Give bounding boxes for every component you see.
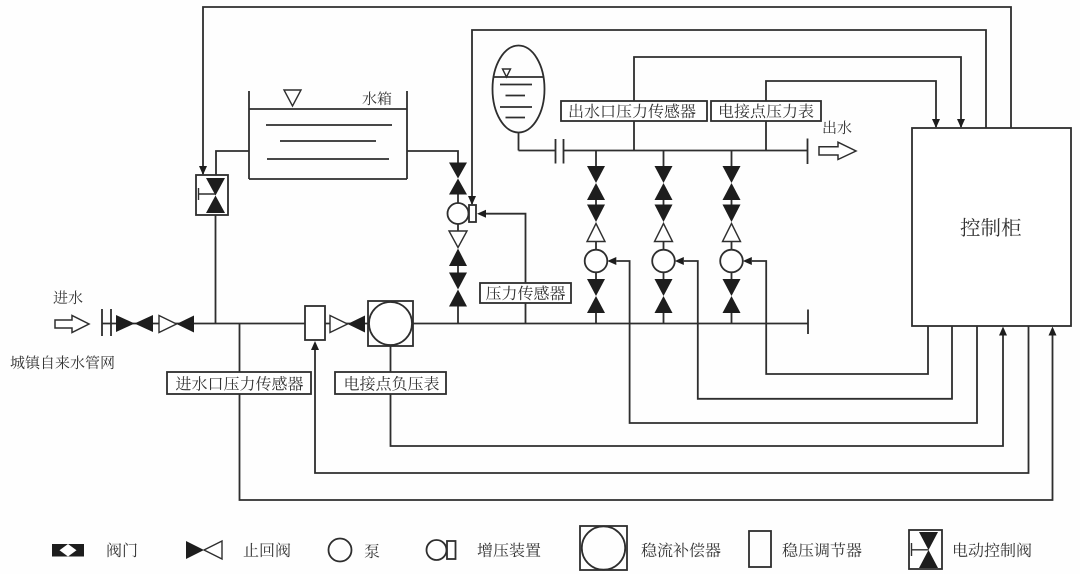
wire pump 3 control arrowhead [743, 257, 752, 265]
wire outlet sensor to manifold [633, 121, 635, 151]
legend booster rect [447, 541, 456, 559]
label legend 稳压调节器 [782, 543, 797, 558]
vessel gauge line 1 [500, 84, 532, 86]
pump 2 circle [652, 250, 675, 273]
electric control valve V1 box [196, 175, 228, 215]
pump branch 1 pipe to pump [595, 242, 597, 251]
pipe V6 to main pipe [457, 307, 459, 325]
electric valve V4 bowtie lower [449, 179, 467, 195]
vessel gauge line 2 [506, 95, 526, 97]
arrowhead D into cabinet bottom [999, 327, 1007, 336]
check valve V3 filled half [177, 316, 195, 333]
label 出水 [823, 121, 835, 135]
water tank left wall [248, 91, 250, 179]
pipe valve V1 to main pipe [215, 215, 217, 324]
label legend 阀门 [108, 542, 122, 557]
pipe vessel to union [519, 150, 556, 152]
check valve V8 hollow half [330, 316, 348, 333]
label legend 止回阀 [244, 543, 259, 557]
outlet union tick 1 [555, 139, 557, 164]
pump branch 2 pipe below pump [663, 272, 665, 279]
pump branch 1 upper pipe [595, 151, 597, 167]
water tank bottom [249, 178, 407, 180]
legend compensator circle [582, 526, 625, 569]
valve V1 stem T [198, 188, 200, 200]
legend compensator square [580, 526, 627, 570]
water tank right wall [406, 91, 408, 179]
pump branch 3 lower bowtie upper [723, 279, 741, 296]
pipe tank to booster column [407, 151, 458, 163]
pipe booster pump to check valve [457, 224, 459, 231]
pump branch 1 pipe [595, 200, 597, 205]
pump 3 circle [720, 250, 743, 273]
legend check valve hollow half [204, 541, 222, 559]
pump branch 2 pipe to pump [663, 242, 665, 251]
legend valve symbol bar [52, 544, 84, 557]
pipe check valve to V6 [457, 266, 459, 273]
valve V1 bowtie upper [206, 178, 225, 196]
arrowhead W4 into cabinet top [932, 119, 940, 128]
wire booster sensor arrowhead [477, 210, 486, 218]
legend valve symbol diamond notch [60, 544, 77, 557]
pump branch 3 pipe [731, 200, 733, 205]
pump branch 2 pipe to suction main [663, 313, 665, 324]
control cabinet box [912, 128, 1071, 326]
pump branch 2 valve bowtie lower [655, 183, 673, 200]
wire pump 3 control run [752, 261, 928, 374]
legend electric valve box [909, 530, 942, 569]
wire signal W3 (outlet pressure sensor to cabinet) [634, 57, 961, 127]
pump branch 1 valve bowtie lower [587, 183, 605, 200]
pump branch 3 check valve filled half [723, 205, 741, 223]
gate valve V2 right half [135, 315, 154, 332]
legend electric valve bowtie upper [919, 532, 938, 550]
wire inlet sensor drop [239, 324, 241, 372]
wire pump 2 control arrowhead [675, 257, 684, 265]
pump branch 1 check valve filled half [587, 205, 605, 223]
water tank water line [249, 108, 407, 110]
label box 电接点负压表 [335, 372, 446, 394]
pump branch 1 lower bowtie lower [587, 296, 605, 313]
wire D gauge drop [390, 346, 392, 372]
pipe tank to valve V1 [216, 151, 249, 175]
wire E regulator to cabinet [315, 326, 1029, 473]
pump branch 3 check valve hollow half [723, 224, 741, 242]
arrowhead W1 into valve V1 [199, 166, 207, 175]
pump branch 2 lower bowtie upper [655, 279, 673, 296]
pressure regulator R1 [305, 306, 325, 340]
wire pump 2 control run [684, 261, 952, 399]
label 进水 [53, 290, 67, 304]
wire D gauge to cabinet [391, 335, 1004, 446]
check valve V5 hollow half [449, 231, 467, 248]
label box 进水口压力传感器 [167, 372, 311, 394]
label box 电接点压力表 [711, 101, 821, 121]
legend pump circle [329, 539, 352, 562]
arrowhead W3 into cabinet top [957, 119, 965, 128]
outlet manifold end tick [807, 139, 809, 165]
arrowhead W2 into booster rect [468, 196, 476, 205]
outlet manifold [564, 150, 808, 152]
label box 压力传感器 [480, 283, 571, 303]
pump branch 3 lower bowtie lower [723, 296, 741, 313]
vessel level symbol [503, 69, 511, 77]
vessel water line [494, 76, 544, 78]
pump branch 2 check valve filled half [655, 205, 673, 223]
pipe vessel drop [518, 133, 520, 151]
wire control W2 (cabinet to booster regulator) [472, 30, 986, 204]
legend regulator rect [749, 531, 771, 567]
check valve V5 filled half [449, 249, 467, 267]
tank inner line 1 [266, 124, 392, 126]
inlet flow arrow [55, 316, 89, 333]
wire F sensor to cabinet [240, 335, 1053, 500]
wire booster sensor to pipe sensor [486, 214, 526, 283]
tank inner line 2 [280, 140, 376, 142]
wire pump 1 control arrowhead [607, 257, 616, 265]
pump branch 3 valve bowtie upper [723, 166, 741, 183]
main suction pipe end tick [807, 310, 809, 335]
pump branch 1 check valve hollow half [587, 224, 605, 242]
pump branch 1 lower bowtie upper [587, 279, 605, 296]
label 水箱 [362, 91, 376, 105]
pump branch 1 pipe to suction main [595, 313, 597, 324]
pump branch 1 pipe below pump [595, 272, 597, 279]
pump branch 1 valve bowtie upper [587, 166, 605, 183]
pump branch 2 pipe [663, 200, 665, 205]
tank inner line 3 [267, 158, 389, 160]
booster pump circle [448, 203, 469, 224]
valve V1 bowtie lower [206, 196, 225, 214]
outlet flow arrow [819, 142, 856, 159]
steady-flow compensator U1 square [368, 301, 413, 346]
label 城镇自来水管网 [10, 356, 24, 370]
wire contact gauge to manifold [765, 121, 767, 151]
pipe V4 to booster pump [457, 195, 459, 204]
steady-flow compensator U1 circle [369, 302, 412, 345]
legend electric valve stem T [911, 543, 913, 556]
pump branch 2 lower bowtie lower [655, 296, 673, 313]
inlet union tick 1 [101, 309, 103, 336]
label 控制柜 [961, 218, 980, 237]
pump branch 2 valve bowtie upper [655, 166, 673, 183]
booster device rect [469, 205, 476, 222]
pump 1 circle [585, 250, 608, 273]
valve V6 bowtie upper [449, 273, 467, 290]
wire pipe sensor tap [525, 303, 527, 324]
inlet union tick 2 [110, 309, 112, 336]
legend check valve filled half [186, 541, 204, 559]
label legend 泵 [365, 544, 380, 559]
main suction pipe [102, 323, 808, 325]
pressure vessel oval [493, 46, 545, 133]
pump branch 3 upper pipe [731, 151, 733, 167]
arrowhead E into regulator R1 [311, 341, 319, 350]
wire pump 1 control run [616, 261, 977, 423]
pump branch 3 valve bowtie lower [723, 183, 741, 200]
pump branch 3 pipe to suction main [731, 313, 733, 324]
vessel gauge line 4 [506, 117, 526, 119]
pump branch 2 check valve hollow half [655, 224, 673, 242]
pump branch 2 upper pipe [663, 151, 665, 167]
vessel gauge line 3 [500, 106, 532, 108]
gate valve V2 left half [116, 315, 135, 332]
check valve V8 filled half [348, 316, 366, 333]
label legend 增压装置 [478, 543, 492, 558]
pump branch 3 pipe to pump [731, 242, 733, 251]
legend booster circle [427, 540, 447, 560]
pump branch 3 pipe below pump [731, 272, 733, 279]
label legend 稳流补偿器 [641, 543, 656, 558]
wire signal W4 (contact pressure gauge to cabinet) [766, 81, 936, 127]
electric valve V4 bowtie upper [449, 163, 467, 179]
arrowhead F into cabinet bottom [1049, 327, 1057, 336]
valve V6 bowtie lower [449, 290, 467, 307]
legend electric valve bowtie lower [919, 550, 938, 568]
label box 出水口压力传感器 [561, 101, 707, 121]
wire control W1 (cabinet to left electric valve) [203, 7, 1011, 174]
water level symbol (tank) [284, 90, 301, 106]
label legend 电动控制阀 [954, 543, 967, 557]
check valve V3 hollow half [159, 316, 177, 333]
outlet union tick 2 [563, 139, 565, 164]
